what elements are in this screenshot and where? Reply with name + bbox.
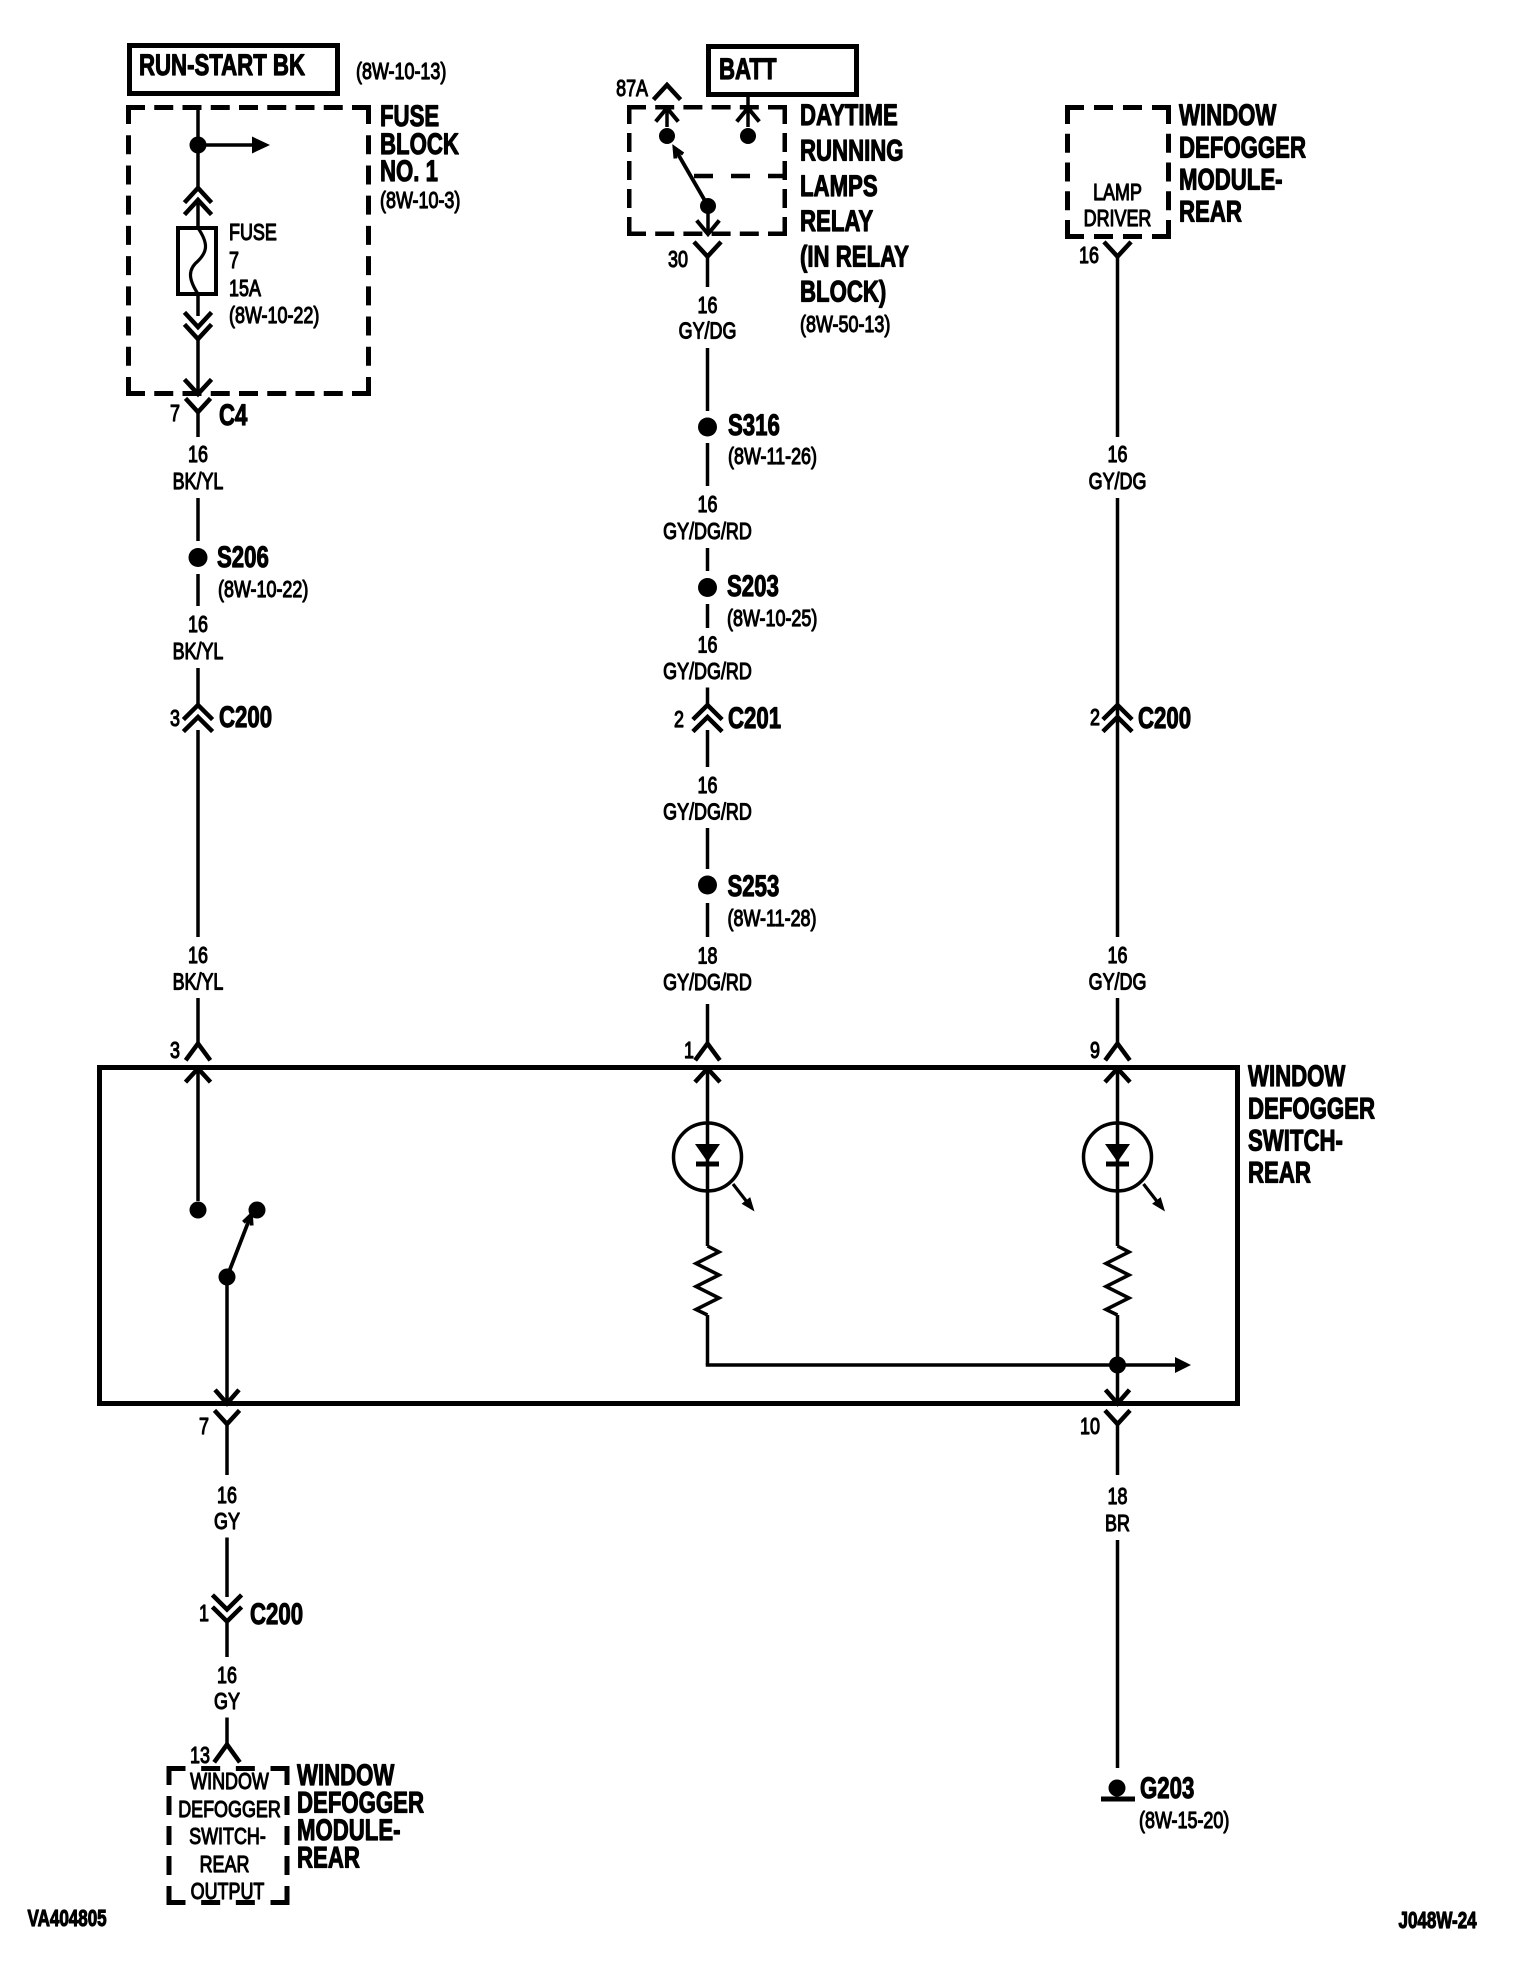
svg-text:3: 3 xyxy=(170,1038,180,1064)
svg-text:16: 16 xyxy=(698,773,718,799)
wire C200 down xyxy=(225,1623,229,1657)
svg-text:G203: G203 xyxy=(1140,1771,1194,1805)
indicator LED circle (right) xyxy=(1084,1123,1152,1191)
svg-text:DAYTIME: DAYTIME xyxy=(800,98,898,132)
svg-text:15A: 15A xyxy=(229,276,261,302)
svg-text:16: 16 xyxy=(217,1663,237,1689)
svg-text:(8W-11-26): (8W-11-26) xyxy=(728,444,817,470)
connector C200 chevrons down xyxy=(214,1597,240,1610)
svg-text:RELAY: RELAY xyxy=(800,204,874,238)
ground G203 symbol xyxy=(1109,1780,1126,1797)
wire to S253 xyxy=(706,828,710,869)
wire to S203 xyxy=(706,548,710,571)
LED emission arrow (right) xyxy=(1144,1184,1158,1202)
entry arrow pin 3 xyxy=(187,1069,209,1081)
connector pin 10 symbol xyxy=(1107,1412,1129,1424)
svg-text:16: 16 xyxy=(1108,442,1128,468)
svg-text:9: 9 xyxy=(1090,1038,1100,1064)
svg-text:DEFOGGER: DEFOGGER xyxy=(1179,130,1306,164)
LED emission arrow (middle) xyxy=(733,1184,747,1202)
svg-text:1: 1 xyxy=(684,1038,694,1064)
junction dot bottom xyxy=(1109,1357,1126,1374)
wire down to C200 xyxy=(225,1538,229,1598)
wire into switch pin 9 xyxy=(1116,998,1120,1043)
LED cathode bar (right) xyxy=(1106,1162,1129,1167)
wire C200 down long xyxy=(196,730,200,937)
svg-text:GY/DG: GY/DG xyxy=(1089,469,1147,495)
svg-text:BLOCK): BLOCK) xyxy=(800,274,886,308)
connector 16 symbol xyxy=(1106,244,1130,257)
svg-text:16: 16 xyxy=(698,293,718,319)
LED diode triangle (middle) xyxy=(695,1144,720,1162)
svg-text:(8W-10-22): (8W-10-22) xyxy=(218,577,308,603)
window defogger module dashed box xyxy=(1065,105,1171,110)
wire resistor down (middle) xyxy=(706,1315,710,1365)
svg-text:(8W-10-3): (8W-10-3) xyxy=(380,188,460,214)
svg-text:NO. 1: NO. 1 xyxy=(380,154,438,188)
svg-text:REAR: REAR xyxy=(297,1840,360,1874)
wire C4 to S206 xyxy=(196,498,200,541)
svg-text:BR: BR xyxy=(1105,1511,1130,1537)
relay switch arm xyxy=(675,148,709,206)
exit arrowhead at fuse block edge xyxy=(186,381,210,394)
svg-text:(8W-10-25): (8W-10-25) xyxy=(727,606,817,632)
svg-text:7: 7 xyxy=(170,401,180,427)
wire pin1 to LED xyxy=(706,1069,710,1192)
connector C200 chevrons xyxy=(185,705,211,718)
wire LED to resistor (middle) xyxy=(706,1191,710,1246)
svg-text:GY/DG/RD: GY/DG/RD xyxy=(663,799,752,825)
wire LED to resistor (right) xyxy=(1116,1191,1120,1246)
svg-text:1: 1 xyxy=(199,1601,209,1627)
svg-text:10: 10 xyxy=(1080,1414,1100,1440)
svg-text:LAMP: LAMP xyxy=(1093,180,1142,206)
svg-text:C201: C201 xyxy=(728,701,781,735)
relay contact dot 87 xyxy=(740,128,756,144)
half connector at switch pin 3 xyxy=(187,1044,209,1059)
svg-text:16: 16 xyxy=(188,612,208,638)
relay internal shelf dashed line xyxy=(694,174,787,179)
relay common dot xyxy=(700,198,716,214)
relay contact dot 87A xyxy=(659,128,675,144)
svg-text:DRIVER: DRIVER xyxy=(1084,206,1152,232)
svg-text:OUTPUT: OUTPUT xyxy=(191,1879,265,1905)
svg-text:16: 16 xyxy=(188,442,208,468)
wire down to ground xyxy=(1116,1540,1120,1768)
svg-text:2: 2 xyxy=(1090,705,1100,731)
wire fuse down xyxy=(196,296,200,316)
wire to C201 xyxy=(706,688,710,706)
wire into switch xyxy=(196,998,200,1043)
svg-text:16: 16 xyxy=(217,1483,237,1509)
wire chevron to fuse xyxy=(196,201,200,228)
wire to fuse block exit xyxy=(196,339,200,392)
svg-text:18: 18 xyxy=(1108,1484,1128,1510)
splice S203 dot xyxy=(698,578,717,597)
LED diode triangle (right) xyxy=(1105,1144,1130,1162)
svg-text:S253: S253 xyxy=(728,869,780,903)
svg-text:REAR: REAR xyxy=(1179,194,1242,228)
svg-text:S203: S203 xyxy=(727,569,779,603)
power feed box BATT xyxy=(709,47,857,95)
wire across to junction xyxy=(706,1363,1176,1367)
svg-text:GY/DG: GY/DG xyxy=(679,318,737,344)
svg-text:2: 2 xyxy=(674,707,684,733)
entry arrow pin 9 xyxy=(1107,1069,1129,1081)
svg-text:GY/DG/RD: GY/DG/RD xyxy=(663,519,752,545)
wire resistor to bottom (right) xyxy=(1116,1315,1120,1400)
svg-text:VA404805: VA404805 xyxy=(28,1907,107,1932)
svg-text:16: 16 xyxy=(1108,943,1128,969)
svg-text:C200: C200 xyxy=(250,1597,303,1631)
switch output arrowhead at box edge xyxy=(217,1392,238,1404)
svg-text:RUNNING: RUNNING xyxy=(800,133,904,167)
indicator LED circle (middle) xyxy=(674,1123,742,1191)
exit arrowhead pin 10 xyxy=(1107,1392,1128,1404)
wire S253 down xyxy=(706,903,710,937)
svg-text:BATT: BATT xyxy=(719,52,777,86)
svg-text:7: 7 xyxy=(229,248,239,274)
power feed box RUN-START BK xyxy=(130,46,338,94)
splice S253 dot xyxy=(698,876,717,895)
svg-text:13: 13 xyxy=(190,1743,210,1769)
relay pin 87 arrow inside xyxy=(738,108,758,120)
svg-text:GY: GY xyxy=(214,1689,240,1715)
fuse block no.1 dashed box xyxy=(126,105,371,110)
connector C201 chevrons xyxy=(695,705,721,718)
svg-text:MODULE-: MODULE- xyxy=(1179,162,1283,196)
svg-text:GY/DG/RD: GY/DG/RD xyxy=(663,970,752,996)
wire pin3 to switch contact xyxy=(196,1069,200,1202)
wire S203 down xyxy=(706,604,710,628)
svg-text:16: 16 xyxy=(698,492,718,518)
svg-text:REAR: REAR xyxy=(1248,1155,1311,1189)
connector chevrons below fuse xyxy=(186,314,210,327)
switch arm (open) xyxy=(227,1215,251,1277)
svg-text:C4: C4 xyxy=(219,398,248,432)
relay exit arrowhead xyxy=(698,222,718,234)
svg-text:87A: 87A xyxy=(616,76,648,102)
svg-text:BK/YL: BK/YL xyxy=(173,969,224,995)
half connector at switch pin 1 xyxy=(697,1044,719,1059)
svg-text:REAR: REAR xyxy=(200,1852,250,1878)
connector 30 symbol xyxy=(696,244,720,257)
switch open contact dot xyxy=(249,1202,266,1219)
daytime running lamps relay dashed box xyxy=(627,105,787,110)
svg-text:S206: S206 xyxy=(217,540,269,574)
wire run-start feed into fuse block xyxy=(196,105,200,188)
svg-text:(8W-11-28): (8W-11-28) xyxy=(728,906,817,932)
svg-text:16: 16 xyxy=(188,943,208,969)
svg-text:RUN-START BK: RUN-START BK xyxy=(139,48,305,82)
svg-text:LAMPS: LAMPS xyxy=(800,169,878,203)
wire to module xyxy=(225,1718,229,1745)
arrowhead to switch output xyxy=(1175,1357,1191,1373)
fuse 7 body xyxy=(178,228,216,294)
switch output wire down xyxy=(225,1277,229,1400)
svg-text:DEFOGGER: DEFOGGER xyxy=(178,1797,281,1823)
relay pin 87A arrow inside xyxy=(657,108,677,120)
half connector at switch pin 9 xyxy=(1107,1044,1129,1059)
svg-text:SWITCH-: SWITCH- xyxy=(189,1824,266,1850)
svg-text:(8W-10-13): (8W-10-13) xyxy=(356,59,446,85)
wire to C200 xyxy=(196,668,200,705)
wire S206 down xyxy=(196,574,200,606)
svg-text:DEFOGGER: DEFOGGER xyxy=(1248,1091,1375,1125)
resistor (middle) xyxy=(696,1246,719,1315)
branch wire to other circuits xyxy=(198,143,252,147)
svg-text:18: 18 xyxy=(698,943,718,969)
svg-text:WINDOW: WINDOW xyxy=(1248,1059,1345,1093)
splice S316 dot xyxy=(698,418,717,437)
connector pin 7 symbol xyxy=(216,1412,238,1424)
svg-text:S316: S316 xyxy=(728,408,780,442)
connector C200 chevrons right xyxy=(1105,705,1131,718)
switch fixed contact dot xyxy=(190,1202,207,1219)
wire pin9 to LED xyxy=(1116,1069,1120,1192)
wire to S316 xyxy=(706,348,710,411)
LED cathode bar (middle) xyxy=(696,1162,719,1167)
svg-text:J048W-24: J048W-24 xyxy=(1399,1909,1478,1934)
connector chevrons in fuse block (upper) xyxy=(186,188,210,201)
wire long down to C200 xyxy=(1116,498,1120,937)
junction dot in fuse block xyxy=(190,137,207,154)
wire S316 down xyxy=(706,443,710,486)
branch arrowhead xyxy=(252,137,270,154)
svg-text:BK/YL: BK/YL xyxy=(173,639,224,665)
wire C201 down xyxy=(706,730,710,767)
svg-text:C200: C200 xyxy=(219,700,272,734)
svg-text:GY/DG/RD: GY/DG/RD xyxy=(663,659,752,685)
svg-text:(8W-10-22): (8W-10-22) xyxy=(229,303,319,329)
window defogger module output dashed box xyxy=(167,1766,290,1771)
svg-text:GY: GY xyxy=(214,1509,240,1535)
svg-text:(8W-15-20): (8W-15-20) xyxy=(1139,1808,1229,1834)
window defogger switch-rear box xyxy=(100,1068,1238,1404)
svg-text:GY/DG: GY/DG xyxy=(1089,969,1147,995)
wire into switch pin 1 xyxy=(706,1004,710,1043)
svg-text:16: 16 xyxy=(1079,243,1099,269)
svg-text:WINDOW: WINDOW xyxy=(1179,98,1276,132)
connector C4 symbol xyxy=(187,400,209,412)
chevron pin 87A above relay xyxy=(655,85,679,98)
svg-text:C200: C200 xyxy=(1138,701,1191,735)
half connector pin 13 xyxy=(216,1745,239,1761)
svg-text:BK/YL: BK/YL xyxy=(173,469,224,495)
splice S206 dot xyxy=(189,548,208,567)
svg-text:7: 7 xyxy=(199,1414,209,1440)
entry arrow pin 1 xyxy=(697,1069,719,1081)
wire BATT to relay 87 xyxy=(746,95,750,127)
svg-text:16: 16 xyxy=(698,632,718,658)
switch pivot dot xyxy=(219,1269,236,1286)
svg-text:30: 30 xyxy=(668,247,688,273)
svg-text:(IN RELAY: (IN RELAY xyxy=(800,239,909,273)
svg-text:WINDOW: WINDOW xyxy=(190,1769,269,1795)
resistor (right) xyxy=(1106,1246,1129,1315)
svg-text:SWITCH-: SWITCH- xyxy=(1248,1123,1343,1157)
svg-text:(8W-50-13): (8W-50-13) xyxy=(800,312,890,338)
svg-text:FUSE: FUSE xyxy=(229,220,277,246)
svg-text:3: 3 xyxy=(170,706,180,732)
relay common wire down xyxy=(706,206,710,232)
